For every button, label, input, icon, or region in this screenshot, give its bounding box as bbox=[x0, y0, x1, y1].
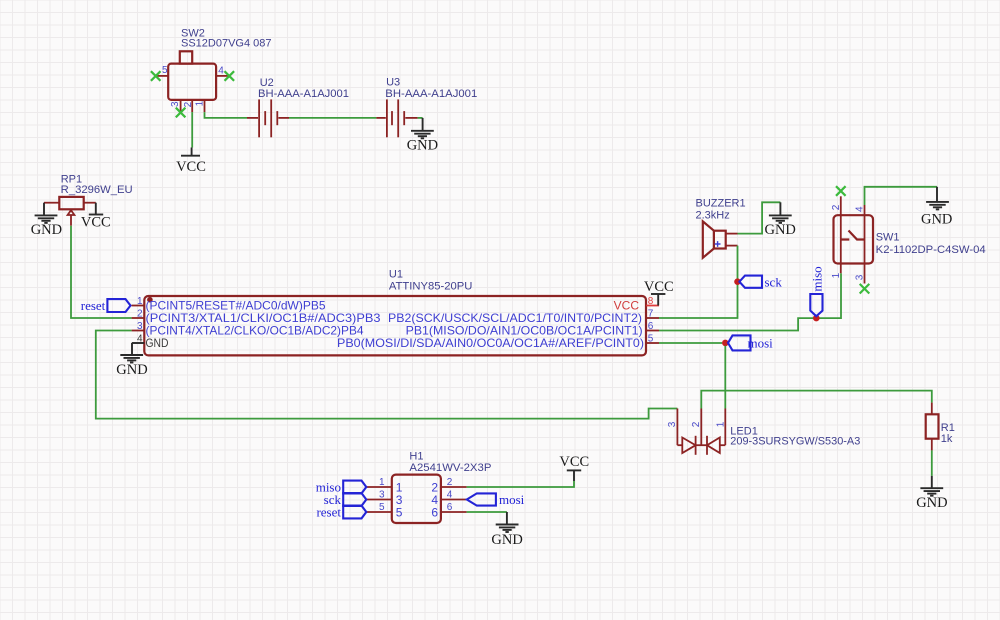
svg-text:1: 1 bbox=[379, 477, 385, 488]
wire U1 pin 6 to SW1 pin 1 bbox=[659, 273, 841, 330]
wire U3 to GND bbox=[418, 117, 423, 119]
wire U1 pin 3 loop to LED1 pin 3 bbox=[96, 331, 678, 419]
H1 pin 2 bbox=[431, 477, 466, 494]
svg-text:5: 5 bbox=[648, 333, 654, 344]
svg-text:2.3kHz: 2.3kHz bbox=[696, 210, 730, 222]
battery U3 symbol bbox=[376, 99, 417, 137]
LED1 pin 1 bbox=[715, 409, 726, 446]
svg-text:4: 4 bbox=[855, 206, 866, 212]
wire BUZZER1 pin2 to U1 pin 7 bbox=[659, 246, 738, 318]
U1 pin 7 bbox=[646, 308, 659, 319]
resistor R1 designator bbox=[941, 422, 955, 434]
BUZZER1 pin 2 bbox=[726, 245, 738, 247]
U1 pin 8 name VCC bbox=[614, 299, 640, 313]
svg-text:ATTINY85-20PU: ATTINY85-20PU bbox=[389, 280, 473, 292]
RP1 pin 1 bbox=[44, 202, 59, 204]
svg-text:2: 2 bbox=[137, 308, 143, 319]
ground symbol at U3 bbox=[407, 118, 438, 154]
svg-text:sck: sck bbox=[765, 274, 783, 289]
svg-text:1: 1 bbox=[195, 100, 206, 106]
svg-text:GND: GND bbox=[146, 336, 169, 350]
svg-text:1: 1 bbox=[831, 272, 842, 278]
switch SW2 body bbox=[168, 51, 216, 100]
svg-text:GND: GND bbox=[31, 222, 62, 238]
buzzer BUZZER1 value 2.3kHz bbox=[696, 210, 730, 222]
SW2 pin 2 bbox=[183, 100, 194, 112]
connector H1 designator bbox=[409, 451, 423, 463]
svg-text:reset: reset bbox=[316, 505, 341, 520]
RP1 pin 3 bbox=[84, 202, 96, 204]
U1 pin 3 name bbox=[146, 324, 364, 338]
svg-text:GND: GND bbox=[921, 211, 952, 227]
svg-text:K2-1102DP-C4SW-04: K2-1102DP-C4SW-04 bbox=[876, 244, 986, 256]
LED1 pin 3 bbox=[667, 409, 678, 446]
no-connect X on SW1 pin 3 bbox=[860, 284, 870, 294]
power symbol VCC at U1 pin 8 bbox=[644, 279, 674, 305]
potentiometer RP1 body bbox=[59, 197, 83, 209]
wire RP1 wiper to U1 pin 2 bbox=[71, 226, 132, 318]
U1 pin 5 bbox=[646, 333, 659, 344]
power symbol VCC at RP1 bbox=[81, 203, 111, 231]
no-connect X on SW1 pin 2 bbox=[836, 186, 846, 196]
svg-text:2: 2 bbox=[831, 204, 842, 210]
connector H1 body bbox=[392, 475, 441, 523]
svg-text:3: 3 bbox=[855, 274, 866, 280]
wire SW2 pin1 to battery U2 bbox=[205, 112, 248, 118]
IC U1 designator bbox=[389, 269, 403, 281]
battery U2 symbol bbox=[247, 99, 289, 137]
resistor R1 body bbox=[926, 414, 939, 438]
net label reset at U1 pin 1 bbox=[81, 298, 131, 313]
ground symbol at H1 bbox=[491, 512, 522, 548]
connector H1 value A2541WV-2X3P bbox=[409, 462, 491, 474]
svg-text:R_3296W_EU: R_3296W_EU bbox=[61, 184, 133, 196]
svg-text:4: 4 bbox=[137, 333, 143, 344]
svg-text:GND: GND bbox=[916, 495, 947, 511]
SW1 pin 2 bbox=[831, 196, 842, 239]
wire mosi junction down to LED1 pin 1 bbox=[724, 346, 726, 409]
wire SW2 pin2 to VCC bbox=[191, 112, 193, 147]
svg-text:BH-AAA-A1AJ001: BH-AAA-A1AJ001 bbox=[385, 88, 477, 100]
switch SW2 designator bbox=[181, 28, 205, 40]
U1 pin 1 marker dot bbox=[147, 297, 153, 303]
buzzer BUZZER1 designator bbox=[696, 198, 746, 210]
SW2 pin 3 bbox=[170, 100, 181, 112]
net label miso at H1 pin 1 bbox=[316, 480, 367, 495]
IC U1 value ATTINY85-20PU bbox=[389, 280, 473, 292]
svg-text:209-3SURSYGW/S530-A3: 209-3SURSYGW/S530-A3 bbox=[730, 436, 860, 448]
junction mosi node bbox=[722, 340, 729, 347]
BUZZER1 pin 1 bbox=[726, 233, 738, 235]
svg-text:5: 5 bbox=[162, 65, 168, 76]
net label sck bbox=[739, 274, 782, 289]
no-connect X on SW2 pin 4 bbox=[225, 71, 235, 81]
RP1 wiper pin 2 with arrow bbox=[68, 210, 75, 226]
buzzer BUZZER1 symbol bbox=[703, 221, 726, 257]
ground symbol at R1 bbox=[916, 476, 947, 511]
svg-text:GND: GND bbox=[491, 532, 522, 548]
svg-text:H1: H1 bbox=[409, 451, 423, 463]
svg-text:U1: U1 bbox=[389, 269, 403, 281]
U1 pin 4 bbox=[132, 333, 145, 344]
svg-text:5: 5 bbox=[379, 502, 385, 513]
svg-text:A2541WV-2X3P: A2541WV-2X3P bbox=[409, 462, 491, 474]
power symbol VCC below SW2 bbox=[176, 148, 206, 176]
svg-text:3: 3 bbox=[379, 490, 385, 501]
svg-text:GND: GND bbox=[764, 222, 795, 238]
no-connect X on SW2 pin 5 bbox=[151, 71, 161, 81]
wire LED1 pin 2 to R1 bbox=[701, 391, 932, 409]
no-connect X on SW2 pin 3 bbox=[176, 108, 186, 118]
ground symbol at SW1 bbox=[921, 187, 952, 228]
wire H1 pin 2 to VCC bbox=[467, 481, 574, 487]
SW2 pin 1 bbox=[195, 100, 206, 112]
svg-text:PB0(MOSI/DI/SDA/AIN0/OC0A/OC1A: PB0(MOSI/DI/SDA/AIN0/OC0A/OC1A#/AREF/PCI… bbox=[337, 336, 644, 350]
net label sck at H1 pin 3 bbox=[324, 492, 367, 507]
svg-text:6: 6 bbox=[447, 502, 453, 513]
IC U1 body bbox=[144, 296, 646, 355]
wire BUZZER1 pin1 to GND bbox=[738, 202, 781, 233]
svg-text:6: 6 bbox=[648, 321, 654, 332]
U1 pin 4 name GND bbox=[146, 336, 169, 350]
U1 pin 3 bbox=[132, 321, 145, 332]
wire H1 pin 6 to GND bbox=[467, 511, 507, 513]
junction miso node bbox=[813, 315, 820, 322]
svg-text:GND: GND bbox=[407, 138, 438, 154]
svg-text:U3: U3 bbox=[386, 77, 400, 89]
LED1 dual diode symbol bbox=[677, 436, 725, 455]
LED LED1 designator bbox=[730, 426, 758, 438]
power symbol VCC at H1 bbox=[559, 454, 589, 481]
SW1 pin 4 bbox=[855, 205, 866, 240]
svg-text:VCC: VCC bbox=[559, 454, 589, 470]
R1 pin 1 bbox=[931, 403, 933, 415]
R1 pin 2 bbox=[931, 439, 933, 451]
H1 pin 6 bbox=[431, 502, 466, 519]
U1 pin 2 name bbox=[146, 311, 381, 325]
U1 pin 8 bbox=[646, 296, 659, 307]
svg-text:3: 3 bbox=[137, 321, 143, 332]
resistor R1 value 1k bbox=[941, 433, 953, 445]
switch SW2 value SS12D07VG4 087 bbox=[181, 38, 272, 50]
SW2 pin 4 bbox=[216, 65, 228, 76]
svg-text:3: 3 bbox=[170, 101, 181, 107]
potentiometer RP1 value R_3296W_EU bbox=[61, 184, 133, 196]
svg-text:2: 2 bbox=[183, 101, 194, 107]
H1 pin 4 bbox=[431, 490, 466, 507]
U1 pin 6 bbox=[646, 321, 659, 332]
svg-text:1: 1 bbox=[137, 296, 143, 307]
U1 pin 2 bbox=[132, 308, 145, 319]
H1 pin 5 bbox=[366, 502, 403, 519]
svg-text:BUZZER1: BUZZER1 bbox=[696, 198, 746, 210]
U1 pin 5 name bbox=[337, 336, 644, 350]
LED1 pin 2 bbox=[691, 409, 702, 446]
wire U1 pin 5 to mosi bbox=[659, 342, 722, 344]
potentiometer RP1 designator bbox=[61, 174, 82, 186]
svg-text:miso: miso bbox=[809, 266, 824, 291]
svg-text:3: 3 bbox=[667, 421, 678, 427]
U1 pin 6 name bbox=[406, 324, 643, 338]
svg-text:(PCINT4/XTAL2/CLKO/OC1B/ADC2)P: (PCINT4/XTAL2/CLKO/OC1B/ADC2)PB4 bbox=[146, 324, 364, 338]
net label reset at H1 pin 5 bbox=[316, 505, 366, 520]
net label mosi bbox=[728, 335, 773, 350]
SW1 pin 3 bbox=[855, 240, 866, 284]
svg-text:6: 6 bbox=[431, 505, 438, 519]
svg-text:VCC: VCC bbox=[81, 215, 111, 231]
svg-text:7: 7 bbox=[648, 308, 654, 319]
wire SW1 pin 4 to GND bbox=[865, 187, 938, 205]
ground symbol at U1 pin 4 bbox=[116, 343, 147, 378]
net label miso (vertical) bbox=[809, 266, 824, 316]
SW1 pin 1 bbox=[831, 240, 842, 279]
svg-text:1: 1 bbox=[715, 421, 726, 427]
svg-text:4: 4 bbox=[447, 490, 453, 501]
U1 pin 7 name bbox=[388, 311, 642, 325]
svg-text:mosi: mosi bbox=[499, 492, 525, 507]
svg-text:8: 8 bbox=[648, 296, 654, 307]
H1 pin 1 bbox=[366, 477, 403, 494]
switch SW1 body bbox=[834, 215, 874, 263]
svg-text:VCC: VCC bbox=[176, 159, 206, 175]
ground symbol at RP1 bbox=[31, 203, 62, 239]
U1 pin 1 name bbox=[146, 299, 326, 313]
svg-text:2: 2 bbox=[691, 421, 702, 427]
svg-text:4: 4 bbox=[218, 65, 224, 76]
battery U2 designator bbox=[260, 77, 274, 89]
battery U2 value BH-AAA-A1AJ001 bbox=[258, 88, 349, 100]
junction sck node bbox=[734, 278, 741, 285]
svg-text:VCC: VCC bbox=[644, 279, 674, 295]
svg-text:1k: 1k bbox=[941, 433, 953, 445]
svg-text:mosi: mosi bbox=[748, 335, 774, 350]
net label mosi at H1 pin 4 bbox=[467, 492, 525, 507]
SW2 pin 5 bbox=[156, 65, 168, 76]
svg-text:reset: reset bbox=[81, 298, 106, 313]
svg-text:BH-AAA-A1AJ001: BH-AAA-A1AJ001 bbox=[258, 88, 349, 100]
LED LED1 value 209-3SURSYGW/S530-A3 bbox=[730, 436, 860, 448]
svg-text:GND: GND bbox=[116, 362, 147, 378]
svg-text:SW1: SW1 bbox=[876, 232, 900, 244]
wire R1 to GND bbox=[931, 450, 933, 476]
switch SW1 designator bbox=[876, 232, 900, 244]
svg-text:SS12D07VG4 087: SS12D07VG4 087 bbox=[181, 38, 272, 50]
svg-text:2: 2 bbox=[447, 477, 453, 488]
switch SW1 value K2-1102DP-C4SW-04 bbox=[876, 244, 986, 256]
battery U3 designator bbox=[386, 77, 400, 89]
U1 pin 1 bbox=[132, 296, 145, 307]
wire U2 to U3 bbox=[289, 117, 376, 119]
ground symbol at BUZZER1 bbox=[764, 202, 795, 238]
svg-text:5: 5 bbox=[396, 505, 403, 519]
H1 pin 3 bbox=[366, 490, 403, 507]
battery U3 value BH-AAA-A1AJ001 bbox=[385, 88, 477, 100]
